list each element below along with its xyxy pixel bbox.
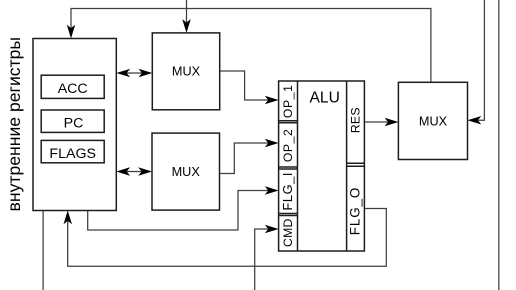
arrowhead into MUX M3 right <box>468 116 482 125</box>
wire registers bottom output to bottom edge <box>42 211 44 290</box>
arrowhead pair registers/M1 left <box>116 69 130 77</box>
wire command from bottom into ALU CMD <box>255 229 268 290</box>
wire external bus down right edge <box>498 0 500 290</box>
arrowhead into OP_1 <box>265 96 279 104</box>
wire external input from top into MUX M1 <box>186 0 188 25</box>
arrowhead into registers top <box>67 25 75 39</box>
register PC box <box>41 110 104 132</box>
ALU left port column divider <box>297 81 299 251</box>
arrowhead pair registers/M1 right <box>139 69 153 77</box>
svg-text:CMD: CMD <box>281 218 295 247</box>
svg-text:внутренние регистры: внутренние регистры <box>4 37 24 212</box>
divider OP_1/OP_2 <box>279 121 298 123</box>
svg-text:OP_1: OP_1 <box>281 85 295 119</box>
svg-text:MUX: MUX <box>172 65 201 79</box>
wire external from top right into MUX M3 right side <box>475 0 484 120</box>
arrowhead into registers bottom from FLG_O <box>64 211 73 225</box>
divider FLG_I/CMD <box>279 214 298 216</box>
svg-text:FLG_I: FLG_I <box>280 172 295 211</box>
wire MUX M1 output to ALU OP_1 <box>220 71 272 100</box>
svg-text:MUX: MUX <box>419 114 448 128</box>
ALU right port column divider <box>346 81 348 251</box>
wire registers bottom to ALU FLG_I <box>88 191 270 231</box>
svg-text:RES: RES <box>349 107 363 133</box>
divider OP_2/FLG_I <box>279 167 298 169</box>
svg-text:PC: PC <box>64 116 84 132</box>
svg-text:FLAGS: FLAGS <box>49 146 96 162</box>
block: MUX M3 <box>398 82 467 159</box>
register ACC box <box>41 75 104 98</box>
wire ALU FLG_O feedback to registers bottom <box>68 209 387 267</box>
svg-text:OP_2: OP_2 <box>281 129 295 163</box>
svg-text:FLG_O: FLG_O <box>348 187 363 235</box>
svg-text:ACC: ACC <box>58 81 88 97</box>
wire ALU RES to MUX M3 <box>364 121 391 123</box>
arrowhead into MUX M3 left <box>385 118 399 126</box>
arrowhead into CMD <box>265 225 279 233</box>
arrowhead into OP_2 <box>265 139 279 147</box>
wire MUX M2 output to ALU OP_2 <box>220 143 272 174</box>
block: ALU outer <box>279 81 365 251</box>
svg-text:ALU: ALU <box>310 90 340 107</box>
svg-text:MUX: MUX <box>172 165 201 179</box>
register FLAGS box <box>41 140 104 162</box>
wire from MUX output (top bus) to internal registers input <box>71 9 431 83</box>
block: MUX M2 <box>152 133 220 210</box>
block: MUX M1 <box>152 33 219 110</box>
divider RES/FLG_O <box>347 163 365 166</box>
arrowhead pair registers/M2 left <box>116 167 130 176</box>
block: internal registers <box>33 39 116 211</box>
arrowhead into MUX M1 top <box>182 19 191 33</box>
arrowhead pair registers/M2 right <box>138 167 152 176</box>
arrowhead into FLG_I <box>265 186 279 195</box>
wire bidirectional registers to MUX M1 <box>124 72 146 74</box>
wire bidirectional registers to MUX M2 <box>124 171 145 173</box>
